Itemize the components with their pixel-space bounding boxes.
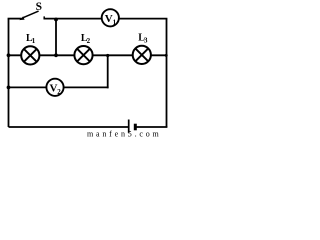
switch pivot contact (19, 16, 24, 20)
wire V1 to top right corner (119, 18, 167, 20)
wire right vertical (166, 19, 168, 127)
svg-text:V: V (105, 13, 113, 25)
switch fixed contact tick (43, 16, 45, 19)
svg-text:S: S (36, 1, 42, 13)
svg-text:V: V (50, 83, 58, 95)
wire top left to switch pivot (8, 18, 22, 20)
svg-text:2: 2 (57, 88, 61, 96)
node left wire V2 row (7, 86, 11, 90)
lamp L1 (21, 46, 39, 64)
wire V2 row left (9, 86, 47, 88)
svg-text:1: 1 (32, 37, 36, 45)
voltmeter V1 (102, 9, 119, 26)
node L1-L2 junction (54, 53, 58, 57)
svg-text:3: 3 (144, 37, 148, 45)
wire left vertical (8, 19, 10, 127)
lamp L3 (133, 46, 151, 64)
switch S blade (23, 11, 39, 18)
svg-text:2: 2 (87, 37, 91, 45)
wire switch to voltmeter V1 (44, 18, 102, 20)
wire branch top to L1-L2 node (55, 19, 57, 56)
node lamp row right wire (165, 54, 168, 57)
wire V2 to corner (64, 86, 109, 88)
wire lamp row (9, 54, 167, 56)
node left wire lamp row (7, 53, 11, 57)
wire bottom right (136, 126, 167, 128)
wire corner up to L2-L3 node (107, 55, 109, 88)
node on top wire (54, 18, 58, 22)
lamp L2 (74, 46, 92, 64)
node L2-L3 junction (106, 54, 109, 57)
battery long plate (128, 120, 130, 133)
wire bottom left (9, 126, 129, 128)
battery short plate (134, 124, 137, 131)
svg-text:manfen5.com: manfen5.com (87, 129, 162, 137)
voltmeter V2 (46, 79, 63, 96)
svg-text:1: 1 (113, 19, 117, 27)
